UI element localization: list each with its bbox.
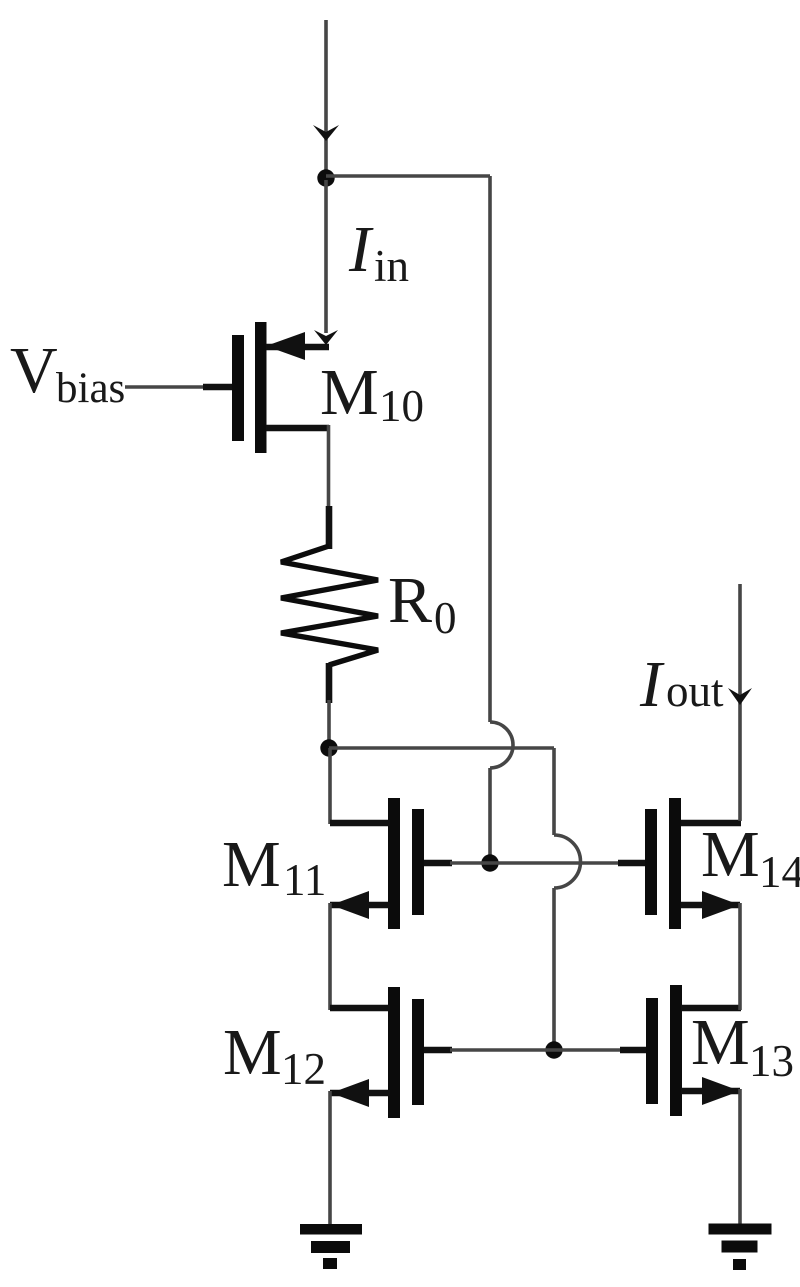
wire: node down to M11 drain bbox=[328, 748, 332, 824]
wire: right column vertical upper bbox=[488, 176, 492, 722]
transistor M11 gate bar bbox=[412, 809, 424, 915]
ground left bar 3 bbox=[323, 1258, 337, 1269]
transistor M12 source arrow bbox=[331, 1079, 369, 1107]
wire: Iout vertical bbox=[738, 584, 742, 821]
node: input node dot bbox=[317, 169, 334, 186]
wire: right column vertical lower bbox=[488, 768, 492, 863]
svg-text:0: 0 bbox=[434, 593, 457, 643]
ground right bar 3 bbox=[733, 1259, 746, 1270]
wire: input node down to M10 source bbox=[324, 180, 328, 333]
wire: middle column vertical upper bbox=[552, 748, 556, 835]
svg-text:M: M bbox=[320, 356, 379, 429]
svg-text:V: V bbox=[10, 334, 58, 407]
wire: M11 source to M12 drain bbox=[328, 903, 332, 1010]
svg-text:M: M bbox=[222, 828, 281, 901]
svg-text:M: M bbox=[691, 1006, 750, 1079]
arrowhead: current into M10 source bbox=[314, 330, 338, 345]
arrowhead: Iout current down bbox=[728, 688, 752, 705]
transistor M10 channel bar bbox=[255, 322, 267, 453]
wire: M14 source to M13 drain bbox=[738, 903, 742, 1010]
transistor M14 gate bar bbox=[645, 809, 657, 915]
svg-text:out: out bbox=[666, 666, 724, 716]
svg-text:in: in bbox=[374, 241, 409, 291]
transistor M12 channel bar bbox=[388, 987, 400, 1118]
transistor M13 channel bar bbox=[670, 985, 682, 1116]
transistor M11 gate lead bbox=[424, 860, 452, 867]
transistor M14 source line bbox=[681, 902, 740, 909]
transistor M14 channel bar bbox=[669, 798, 681, 929]
transistor M10 source line bbox=[266, 344, 329, 351]
svg-text:I: I bbox=[348, 213, 374, 286]
ground left bar 1 bbox=[300, 1224, 362, 1235]
transistor M12 source line bbox=[330, 1090, 390, 1097]
transistor M13 source arrow bbox=[702, 1077, 740, 1105]
wire: M10 drain to resistor bbox=[327, 425, 331, 512]
svg-text:11: 11 bbox=[283, 855, 326, 905]
transistor M14 gate lead bbox=[618, 860, 646, 867]
svg-text:13: 13 bbox=[749, 1036, 794, 1086]
transistor M14 drain line bbox=[681, 820, 741, 827]
transistor M12 gate bar bbox=[412, 999, 424, 1105]
transistor M10 source arrow bbox=[266, 332, 305, 360]
transistor M13 drain line bbox=[681, 1005, 741, 1012]
transistor M10 gate bar bbox=[232, 335, 244, 441]
transistor M12 gate lead bbox=[424, 1047, 452, 1054]
ground left bar 2 bbox=[311, 1241, 350, 1253]
resistor R0 top lead bbox=[326, 506, 333, 549]
node: gate row 2 junction dot bbox=[545, 1041, 562, 1058]
wire: M12 source to ground bbox=[328, 1091, 332, 1226]
ground right bar 1 bbox=[709, 1224, 772, 1235]
transistor M11 source line bbox=[330, 902, 390, 909]
svg-text:bias: bias bbox=[56, 365, 125, 412]
wire: gate row 1 bbox=[450, 861, 620, 865]
svg-text:R: R bbox=[388, 564, 432, 637]
node: resistor bottom node dot bbox=[320, 739, 337, 756]
arrowhead: input current down bbox=[313, 125, 339, 141]
wire: middle column vertical lower bbox=[552, 888, 556, 1050]
transistor M13 source line bbox=[681, 1088, 740, 1095]
svg-text:M: M bbox=[701, 818, 760, 891]
wire: input top vertical bbox=[324, 20, 328, 177]
svg-text:14: 14 bbox=[759, 847, 800, 897]
svg-text:I: I bbox=[639, 648, 665, 721]
wire: gate row 2 bbox=[450, 1048, 622, 1052]
transistor M12 drain line bbox=[330, 1005, 390, 1012]
wire: input node to right column bbox=[326, 174, 490, 178]
wire: Vbias lead bbox=[125, 385, 207, 389]
transistor M10 drain line bbox=[266, 425, 329, 432]
resistor R0 bottom lead bbox=[326, 663, 333, 703]
transistor M11 channel bar bbox=[388, 798, 400, 929]
svg-text:M: M bbox=[223, 1016, 282, 1089]
transistor M11 drain line bbox=[330, 820, 390, 827]
transistor M14 source arrow bbox=[702, 891, 740, 919]
transistor M13 gate bar bbox=[646, 998, 658, 1104]
wire: node rail to middle column bbox=[329, 746, 554, 750]
transistor M13 gate lead bbox=[620, 1047, 648, 1054]
svg-text:12: 12 bbox=[281, 1044, 326, 1094]
wire: hop over resistor-node rail bbox=[490, 722, 513, 768]
wire: hop over gate row 1 bbox=[554, 835, 581, 888]
svg-text:10: 10 bbox=[379, 381, 424, 431]
wire: M13 source to ground bbox=[738, 1089, 742, 1226]
resistor R0 zigzag bbox=[281, 546, 378, 665]
transistor M11 source arrow bbox=[331, 891, 369, 919]
transistor M10 gate lead bbox=[203, 384, 232, 391]
node: gate row 1 junction dot bbox=[481, 854, 498, 871]
wire: resistor to node bbox=[327, 700, 331, 748]
ground right bar 2 bbox=[722, 1241, 758, 1253]
